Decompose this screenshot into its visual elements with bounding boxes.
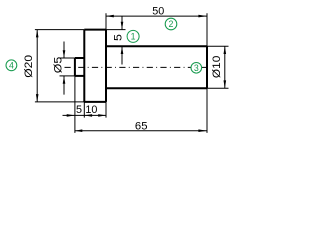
svg-text:4: 4 bbox=[9, 61, 14, 71]
wire: disc top edge bbox=[84, 29, 106, 31]
wire: pin bottom edge bbox=[75, 75, 84, 77]
dim 65: line bbox=[75, 130, 207, 132]
dim 20: line bbox=[36, 30, 38, 102]
dim 50: line bbox=[106, 15, 207, 17]
dim 20: extension top bbox=[35, 29, 84, 31]
dim chain: extension at disc left bbox=[83, 102, 85, 118]
svg-text:5: 5 bbox=[76, 104, 82, 116]
svg-text:2: 2 bbox=[169, 19, 174, 29]
dim 5 pin: line bbox=[63, 42, 65, 59]
svg-text:Ø5: Ø5 bbox=[52, 57, 64, 74]
dim chain: extension at disc right bbox=[105, 102, 107, 118]
wire: disc left face bbox=[83, 30, 85, 102]
svg-text:Ø20: Ø20 bbox=[24, 55, 35, 78]
svg-text:5: 5 bbox=[112, 34, 124, 41]
svg-text:50: 50 bbox=[152, 6, 164, 18]
svg-text:1: 1 bbox=[131, 32, 136, 42]
dim 5 pin: extension top bbox=[60, 57, 75, 59]
node 2 bbox=[165, 18, 177, 30]
wire: disc bottom edge bbox=[84, 101, 106, 103]
dim 65: extension right bbox=[206, 88, 208, 133]
centerline bbox=[65, 66, 209, 68]
wire: shaft top edge bbox=[106, 45, 207, 47]
wire: pin top edge bbox=[75, 57, 84, 59]
dim 10 dia: line bbox=[224, 46, 226, 88]
dim 5 pin: extension bottom bbox=[60, 75, 75, 77]
svg-text:65: 65 bbox=[135, 121, 148, 133]
svg-text:10: 10 bbox=[85, 104, 97, 116]
wire: shaft right face bbox=[206, 46, 208, 88]
wire: disc right face bbox=[105, 30, 107, 102]
dim 5 step: extension bbox=[106, 29, 126, 31]
dim 10 dia: extension top bbox=[207, 45, 229, 47]
dim 5 step: line lower bbox=[121, 46, 123, 64]
svg-text:3: 3 bbox=[194, 63, 199, 73]
wire: pin left face bbox=[74, 58, 76, 76]
dim 5 step: line upper bbox=[121, 16, 123, 30]
node 1 bbox=[127, 30, 139, 42]
node 3 bbox=[191, 63, 202, 74]
dim 50: extension right bbox=[206, 13, 208, 46]
dim 10 dia: extension bottom bbox=[207, 87, 229, 89]
dim 20: extension bottom bbox=[35, 101, 84, 103]
wire: shaft bottom edge bbox=[106, 87, 207, 89]
dim chain 5/10: extension at pin left bbox=[74, 76, 76, 133]
svg-text:Ø10: Ø10 bbox=[211, 56, 222, 78]
node 4 bbox=[6, 60, 17, 71]
dim chain: line bbox=[63, 114, 107, 116]
dim 50: extension left bbox=[105, 13, 107, 29]
